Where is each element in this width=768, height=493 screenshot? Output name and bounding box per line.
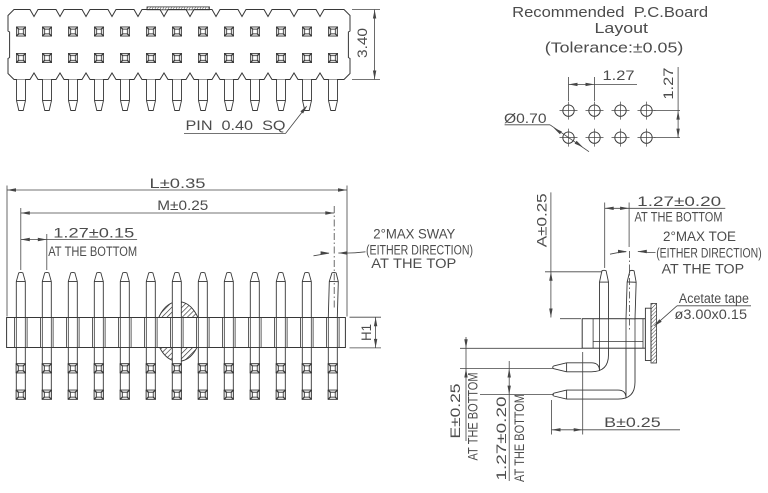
- svg-text:Layout: Layout: [595, 21, 649, 37]
- svg-text:1.27: 1.27: [660, 67, 676, 99]
- svg-text:A±0.25: A±0.25: [533, 193, 549, 247]
- svg-text:1.27±0.15: 1.27±0.15: [53, 224, 134, 240]
- svg-text:Recommended P.C.Board: Recommended P.C.Board: [512, 5, 708, 21]
- svg-text:1.27±0.20: 1.27±0.20: [493, 396, 509, 480]
- svg-text:3.40: 3.40: [354, 28, 370, 58]
- svg-text:AT THE BOTTOM: AT THE BOTTOM: [512, 394, 527, 482]
- svg-text:1.27: 1.27: [603, 67, 635, 83]
- svg-text:AT THE BOTTOM: AT THE BOTTOM: [635, 209, 723, 224]
- svg-text:(EITHER DIRECTION): (EITHER DIRECTION): [656, 245, 762, 260]
- svg-text:AT THE BOTTOM: AT THE BOTTOM: [466, 372, 481, 460]
- svg-text:(Tolerance:±0.05): (Tolerance:±0.05): [545, 40, 684, 56]
- svg-text:PIN 0.40 SQ: PIN 0.40 SQ: [186, 117, 286, 133]
- svg-text:M±0.25: M±0.25: [157, 197, 208, 213]
- svg-text:1.27±0.20: 1.27±0.20: [637, 193, 721, 209]
- svg-text:AT THE TOP: AT THE TOP: [662, 262, 745, 277]
- svg-text:H1: H1: [358, 324, 374, 341]
- svg-text:B±0.25: B±0.25: [604, 414, 661, 430]
- svg-text:L±0.35: L±0.35: [150, 175, 206, 191]
- svg-text:AT THE TOP: AT THE TOP: [371, 256, 456, 271]
- svg-text:2°MAX SWAY: 2°MAX SWAY: [373, 227, 455, 242]
- svg-text:Ø0.70: Ø0.70: [504, 110, 547, 126]
- svg-text:2°MAX TOE: 2°MAX TOE: [663, 229, 736, 244]
- svg-text:Acetate tape: Acetate tape: [679, 291, 749, 306]
- svg-text:ø3.00x0.15: ø3.00x0.15: [675, 307, 748, 322]
- svg-text:AT THE BOTTOM: AT THE BOTTOM: [48, 244, 137, 259]
- svg-text:E±0.25: E±0.25: [447, 383, 463, 438]
